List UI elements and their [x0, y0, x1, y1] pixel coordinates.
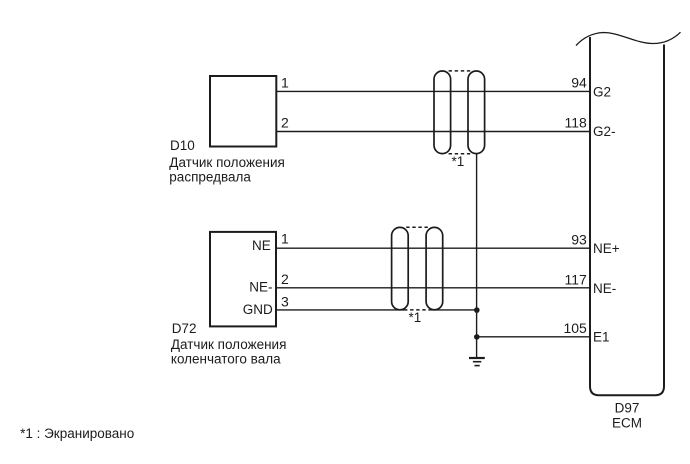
- svg-text:G2: G2: [593, 84, 611, 99]
- svg-text:NE: NE: [252, 238, 271, 253]
- svg-text:NE-: NE-: [593, 281, 616, 296]
- svg-text:105: 105: [563, 320, 587, 336]
- svg-text:ECM: ECM: [612, 416, 642, 431]
- svg-text:коленчатого вала: коленчатого вала: [171, 351, 281, 366]
- shield dashed bottom (upper): [449, 153, 471, 155]
- svg-text:GND: GND: [243, 302, 273, 317]
- svg-text:93: 93: [571, 232, 587, 248]
- svg-text:распредвала: распредвала: [169, 169, 251, 184]
- svg-text:Датчик положения: Датчик положения: [171, 337, 287, 352]
- svg-text:2: 2: [281, 271, 289, 287]
- wire G2- (D10 pin2 to ECM 118): [277, 131, 590, 133]
- shield symbol *1 (upper) right capsule: [468, 71, 485, 154]
- junction dot (E1 wire / shield drain): [474, 334, 480, 340]
- svg-text:NE+: NE+: [593, 241, 620, 256]
- ECM torn-edge wave: [576, 32, 681, 45]
- wire GND (D72 pin3, solid segment): [277, 309, 404, 311]
- svg-text:*1 : Экранировано: *1 : Экранировано: [20, 426, 134, 441]
- svg-text:D10: D10: [170, 138, 195, 153]
- shield symbol *1 (lower) left capsule: [392, 227, 409, 309]
- wire shield drain (vertical from upper shield to ground): [476, 154, 478, 358]
- sensor D72 (crankshaft position sensor) box: [210, 232, 276, 327]
- svg-text:117: 117: [564, 271, 587, 287]
- shield dashed top (upper): [449, 70, 471, 72]
- shield symbol *1 (upper) left capsule: [434, 71, 451, 154]
- svg-text:E1: E1: [593, 330, 610, 345]
- svg-text:D97: D97: [615, 401, 640, 416]
- svg-text:118: 118: [564, 115, 587, 131]
- wire GND (to shield drain junction): [429, 309, 477, 311]
- wire GND dashed segment (shield bottom): [404, 309, 429, 311]
- svg-text:G2-: G2-: [593, 124, 616, 139]
- junction dot (GND wire / shield drain): [474, 307, 480, 313]
- wire NE- (D72 pin2 to ECM 117): [277, 287, 590, 289]
- svg-text:*1: *1: [452, 154, 465, 169]
- svg-text:1: 1: [281, 74, 289, 90]
- svg-text:D72: D72: [172, 321, 197, 336]
- wire NE+ (D72 pin1 to ECM 93): [277, 247, 590, 249]
- shield dashed top (lower): [406, 226, 428, 228]
- svg-text:94: 94: [571, 75, 587, 91]
- ECM connector D97 outline: [590, 37, 664, 395]
- svg-text:*1: *1: [409, 310, 422, 325]
- wire G2 (D10 pin1 to ECM 94): [277, 90, 590, 92]
- svg-text:2: 2: [281, 115, 289, 131]
- sensor D10 (camshaft position sensor) box: [210, 76, 276, 147]
- wire E1 (junction to ECM 105): [477, 336, 590, 338]
- svg-text:Датчик положения: Датчик положения: [169, 155, 285, 170]
- svg-text:NE-: NE-: [249, 279, 272, 294]
- ground symbol: [469, 358, 485, 366]
- svg-text:3: 3: [281, 294, 289, 310]
- shield symbol *1 (lower) right capsule: [426, 227, 443, 309]
- svg-text:1: 1: [281, 231, 289, 247]
